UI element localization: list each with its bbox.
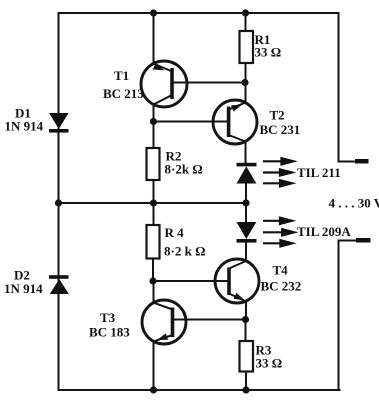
label D2 (4, 268, 43, 297)
svg-text:TIL 209A: TIL 209A (297, 224, 351, 239)
svg-text:33 Ω: 33 Ω (255, 45, 282, 60)
label supply voltage 4...30V (329, 196, 379, 211)
diode D2 (1N 914) (49, 275, 69, 294)
node bottom rail left junction (150, 386, 157, 393)
wire right vertical lower (terminal 2 to bottom rail) (339, 241, 358, 391)
label T3 (89, 310, 130, 340)
svg-text:4 . . . 30 V: 4 . . . 30 V (329, 196, 379, 211)
transistor T2 (BC 231) (213, 100, 257, 144)
wire R2 bottom to middle rail (153, 180, 155, 203)
node middle rail center (150, 199, 157, 206)
svg-text:1N 914: 1N 914 (5, 119, 44, 134)
transistor T1 (BC 213) (141, 61, 187, 107)
wire right vertical upper (top rail to terminal 1) (339, 13, 358, 162)
wire node C to T4 base (153, 280, 229, 282)
svg-text:1N 914: 1N 914 (4, 281, 43, 296)
node top rail right junction (242, 9, 249, 16)
terminal 2 (negative supply) (356, 238, 371, 243)
svg-text:T4: T4 (273, 263, 289, 278)
node C (R4/T4 base/T3 collector) (149, 277, 156, 284)
label R2 value (165, 149, 203, 177)
wire T4 emitter to node D (245, 302, 247, 320)
resistor R2 (147, 148, 160, 180)
transistor T4 (BC 232) (215, 259, 259, 303)
svg-text:BC 231: BC 231 (260, 122, 301, 137)
wire node A to T2 base (154, 121, 229, 123)
wire middle rail to LED TIL209A (245, 203, 247, 223)
label T1 (103, 68, 144, 101)
resistor R1 (240, 31, 254, 63)
node D (T4 emitter/T3 base/R3) (242, 316, 249, 323)
wire R1 bottom to node B (245, 63, 247, 103)
svg-text:8·2 k Ω: 8·2 k Ω (164, 244, 205, 259)
terminal 1 (positive supply) (355, 159, 369, 164)
wire LED TIL209A to T4 collector (245, 242, 247, 261)
transistor T3 (BC 183) (142, 300, 186, 344)
svg-text:BC 232: BC 232 (261, 279, 302, 294)
node bottom rail right junction (242, 386, 249, 393)
wire T2 collector to LED TIL211 (245, 141, 247, 164)
svg-text:TIL 211: TIL 211 (297, 165, 341, 180)
wire bottom rail (59, 389, 340, 391)
svg-text:BC 183: BC 183 (89, 325, 130, 340)
svg-text:T3: T3 (100, 310, 116, 325)
wire T3 base to node D (173, 319, 246, 321)
node top rail left junction (150, 9, 157, 16)
wire middle rail (59, 202, 247, 204)
wire R4 column (middle rail to R4) (153, 203, 155, 225)
label T4 (261, 263, 302, 294)
label TIL 211 (297, 165, 341, 180)
svg-text:33 Ω: 33 Ω (256, 356, 283, 371)
label R4 value (164, 225, 205, 259)
wire R1 top stub (245, 13, 247, 31)
node B (R1/T1 base/T2) (241, 79, 248, 86)
svg-text:T1: T1 (114, 68, 129, 83)
LED TIL209A light arrows (263, 218, 294, 247)
wire top rail (59, 12, 339, 14)
wire T3 emitter to bottom rail (153, 342, 155, 391)
svg-text:BC 213: BC 213 (103, 86, 144, 101)
label T2 (260, 108, 301, 138)
label D1 (5, 106, 44, 134)
LED TIL 209A (237, 222, 257, 243)
label R1 value (255, 32, 282, 60)
svg-text:R 4: R 4 (165, 225, 185, 240)
wire R3 bottom to bottom rail (245, 372, 247, 391)
wire node D to R3 (245, 320, 247, 342)
svg-text:T2: T2 (270, 108, 285, 123)
resistor R4 (147, 225, 160, 259)
wire T1 emitter stub from top rail (153, 13, 155, 64)
label R3 value (256, 343, 283, 371)
wire left rail (58, 13, 60, 390)
node A (T1 collector/R2/T2 base) (150, 118, 157, 125)
label TIL 209A (297, 224, 351, 239)
wire T1 base to node B (172, 82, 246, 84)
wire node C to T3 collector (153, 281, 155, 303)
node middle rail left (55, 199, 62, 206)
LED TIL211 light arrows (263, 158, 294, 186)
node middle rail right (242, 199, 249, 206)
LED TIL 211 (237, 163, 257, 184)
wire LED TIL211 to middle rail (245, 183, 247, 203)
wire R4 bottom to node C (152, 259, 154, 282)
resistor R3 (240, 341, 254, 372)
wire T1 collector to node A (153, 104, 155, 148)
svg-text:8·2k Ω: 8·2k Ω (165, 162, 203, 177)
diode D1 (1N 914) (49, 113, 69, 133)
